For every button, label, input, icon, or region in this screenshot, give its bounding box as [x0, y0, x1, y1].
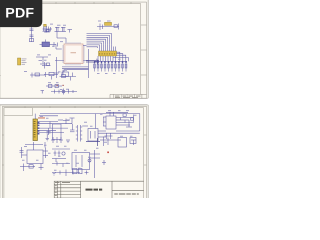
- svg-text:PDF: PDF: [5, 5, 34, 21]
